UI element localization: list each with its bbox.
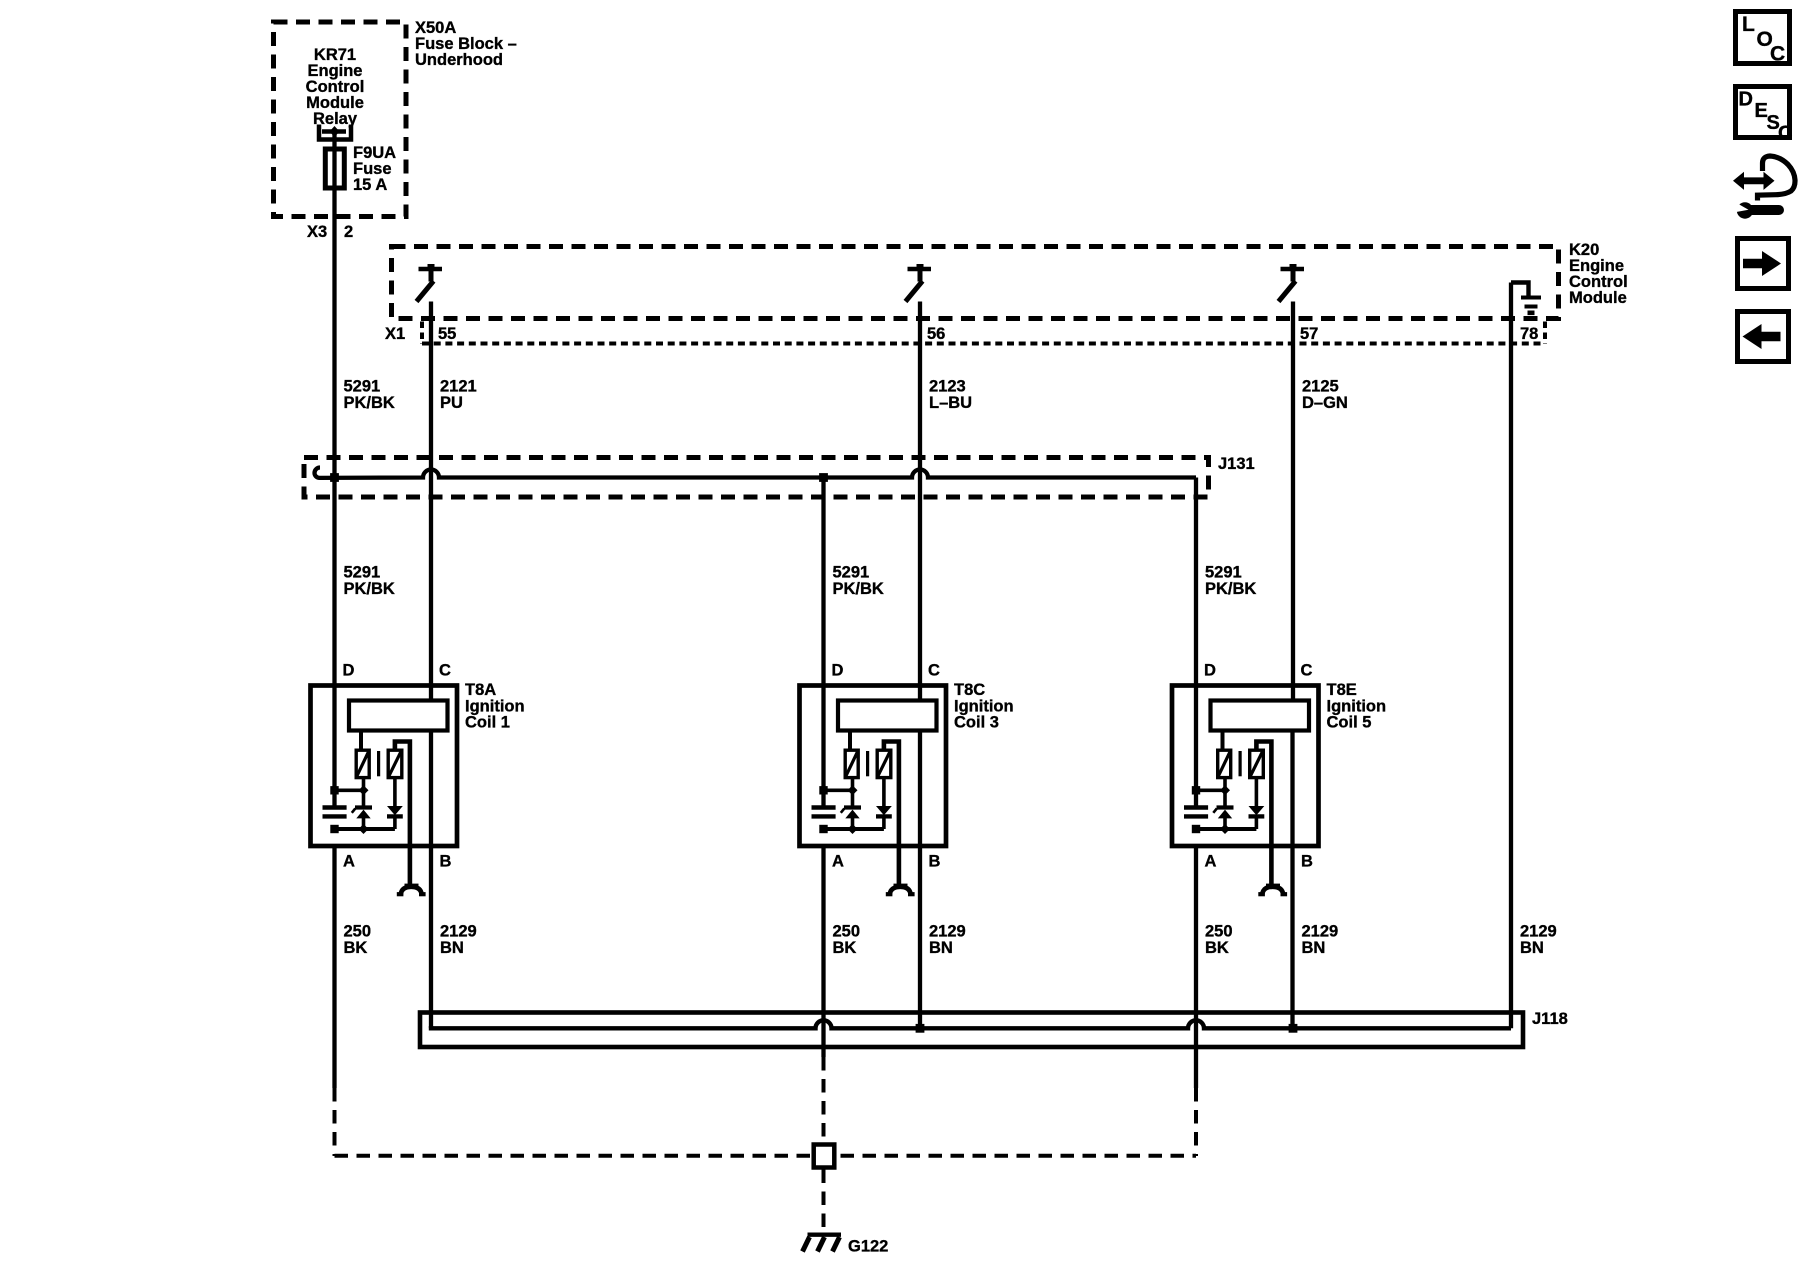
ignition coil T8C outer box <box>800 686 947 847</box>
svg-text:2129: 2129 <box>1520 923 1557 941</box>
coil T8A zener diode <box>352 808 372 830</box>
label X50A Fuse Block Underhood <box>415 19 517 69</box>
label wire 2123 L-BU <box>929 378 972 413</box>
svg-text:2129: 2129 <box>440 923 477 941</box>
wire 5291 branch to coil1 D <box>332 478 336 686</box>
coil T8C link D node to windings <box>824 788 853 792</box>
svg-text:C: C <box>1778 123 1792 145</box>
svg-text:B: B <box>440 853 452 871</box>
coil T8E D lead <box>1194 684 1198 808</box>
coil T8E primary return lead <box>1223 778 1227 806</box>
svg-text:57: 57 <box>1300 325 1318 343</box>
svg-text:PK/BK: PK/BK <box>344 580 395 598</box>
label wire 5291 PK/BK mid right <box>1205 564 1256 599</box>
splice J118 solid box <box>420 1013 1523 1048</box>
svg-text:C: C <box>439 662 451 680</box>
ignition coil T8A outer box <box>311 686 458 847</box>
ECM driver switch pin 55 <box>417 264 443 302</box>
label wire 2129 BN (ECM pin 78) <box>1520 923 1557 958</box>
coil T8A junction dots <box>330 785 368 834</box>
coil T8C spark plug gap <box>886 885 915 895</box>
ECM driver switch pin 56 <box>906 264 932 302</box>
connector X1 dashed line <box>422 342 1544 346</box>
coil T8E capacitor <box>1184 808 1208 817</box>
coil T8C module block <box>838 701 937 731</box>
svg-text:Coil 3: Coil 3 <box>954 714 999 732</box>
label wire 250 BK (T8C) <box>833 923 861 958</box>
coil T8E primary winding <box>1218 750 1231 777</box>
coil T8A core <box>377 751 380 776</box>
junction splice J131 branch coil3 <box>819 473 828 482</box>
svg-text:BN: BN <box>929 939 953 957</box>
svg-text:5291: 5291 <box>833 564 870 582</box>
wire 2129 BN pin78 to splice J118 <box>1509 283 1513 1029</box>
coil T8C primary winding <box>845 750 858 777</box>
ground G122 chassis symbol <box>803 1235 842 1252</box>
fuse F9UA <box>325 149 344 188</box>
coil T8E core <box>1238 751 1241 776</box>
coil T8E winding feed stub <box>1221 731 1225 752</box>
fuse block X50A dashed box <box>274 22 407 217</box>
engine control module K20 dashed box <box>392 247 1559 319</box>
svg-text:D: D <box>1204 662 1216 680</box>
svg-text:5291: 5291 <box>344 378 381 396</box>
svg-text:BN: BN <box>1302 939 1326 957</box>
svg-text:A: A <box>1205 853 1217 871</box>
icon LOC box <box>1736 12 1790 66</box>
junction splice J118 / coil5 B <box>1289 1024 1298 1033</box>
svg-text:Module: Module <box>1569 289 1627 307</box>
junction splice J118 / coil3 B <box>916 1024 925 1033</box>
icon arrow next box <box>1738 239 1789 289</box>
ground dashed drop center lower <box>822 1170 826 1234</box>
coil T8A winding feed stub <box>359 731 363 752</box>
coil T8E junction dots <box>1192 785 1230 834</box>
wire 2121 PU pin55 to coil1 C <box>429 302 433 702</box>
svg-text:A: A <box>832 853 844 871</box>
splice J131 dashed box <box>304 458 1209 498</box>
svg-text:T8E: T8E <box>1327 681 1357 699</box>
svg-text:78: 78 <box>1520 325 1538 343</box>
wire 250 BK coil T8A pin A <box>332 844 336 1088</box>
coil T8C winding feed stub <box>848 731 852 752</box>
label wire 250 BK (T8A) <box>344 923 372 958</box>
label T8E Ignition Coil 5 <box>1327 681 1387 732</box>
coil T8C secondary diode <box>876 778 892 830</box>
icon schematic navigation (arrows and wrench) <box>1733 156 1795 219</box>
connector X1 dashed stub right <box>1543 322 1547 345</box>
ignition coil T8E outer box <box>1172 686 1319 847</box>
ground dashed drop left (250 BK coil1) <box>333 1088 337 1156</box>
ground connector box at G122 <box>814 1145 835 1168</box>
svg-text:5291: 5291 <box>1205 564 1242 582</box>
icon DESC box <box>1736 87 1793 145</box>
relay KR71 contact symbol <box>319 125 351 140</box>
splice J118 bus line with hops <box>431 1020 1511 1028</box>
label KR71 Engine Control Module Relay <box>306 46 365 128</box>
svg-text:C: C <box>1770 43 1785 66</box>
svg-text:X3: X3 <box>307 223 327 241</box>
svg-text:Coil 1: Coil 1 <box>465 714 510 732</box>
wire 5291 PK/BK from relay through fuse to splice J131 <box>332 132 336 479</box>
svg-text:2: 2 <box>344 223 353 241</box>
connector X1 dashed stub left <box>420 322 424 345</box>
svg-text:PK/BK: PK/BK <box>344 394 395 412</box>
svg-text:D: D <box>832 662 844 680</box>
wire 2129 BN coil T8E pin B <box>1290 731 1294 1029</box>
svg-text:B: B <box>929 853 941 871</box>
coil T8A spark plug gap <box>397 885 426 895</box>
svg-text:2123: 2123 <box>929 378 966 396</box>
wire 250 BK coil T8E pin A <box>1194 844 1198 1088</box>
svg-text:55: 55 <box>438 325 456 343</box>
coil T8A primary return lead <box>362 778 366 806</box>
svg-text:250: 250 <box>833 923 861 941</box>
label wire 2129 BN (T8E) <box>1302 923 1339 958</box>
coil T8A module block <box>349 701 448 731</box>
coil T8E HV output lead <box>1256 742 1271 885</box>
ground dashed drop right (250 BK coil5) <box>1194 1088 1198 1156</box>
coil T8C secondary winding <box>877 750 891 777</box>
svg-text:2125: 2125 <box>1302 378 1339 396</box>
svg-text:C: C <box>1301 662 1313 680</box>
svg-text:BN: BN <box>1520 939 1544 957</box>
svg-text:PK/BK: PK/BK <box>1205 580 1256 598</box>
svg-text:5291: 5291 <box>344 564 381 582</box>
svg-text:J131: J131 <box>1218 455 1255 473</box>
label F9UA Fuse 15 A <box>353 144 396 194</box>
coil T8C zener diode <box>841 808 861 830</box>
coil T8A capacitor <box>323 808 347 817</box>
ground dashed drop center upper <box>822 1057 826 1144</box>
coil T8E link D node to windings <box>1196 788 1225 792</box>
junction splice J131 / wire 5291 <box>330 473 339 482</box>
coil T8A secondary diode <box>387 778 403 830</box>
svg-text:T8A: T8A <box>465 681 496 699</box>
coil T8A bottom link <box>335 827 395 831</box>
svg-text:G122: G122 <box>848 1238 888 1256</box>
label wire 2125 D-GN <box>1302 378 1348 413</box>
coil T8C core <box>866 751 869 776</box>
wire 2129 BN coil T8A pin B <box>429 731 433 1029</box>
svg-text:D: D <box>1739 89 1753 111</box>
ground dashed bus horizontal <box>335 1154 1197 1158</box>
svg-text:56: 56 <box>927 325 945 343</box>
svg-text:BN: BN <box>440 939 464 957</box>
svg-text:2129: 2129 <box>929 923 966 941</box>
wire 2129 BN coil T8C pin B <box>918 731 922 1029</box>
svg-text:Underhood: Underhood <box>415 51 503 69</box>
svg-text:BK: BK <box>833 939 857 957</box>
ECM internal ground (pin 78) <box>1511 283 1541 316</box>
svg-text:Coil 5: Coil 5 <box>1327 714 1372 732</box>
label wire 5291 PK/BK upper <box>344 378 395 413</box>
wire 2123 L-BU pin56 to coil3 C <box>918 302 922 702</box>
label wire 5291 PK/BK mid left <box>344 564 395 599</box>
label T8A Ignition Coil 1 <box>465 681 525 732</box>
svg-text:B: B <box>1301 853 1313 871</box>
wire 250 BK coil T8C pin A <box>821 844 825 1057</box>
coil T8C capacitor <box>812 808 836 817</box>
coil T8A D lead <box>332 684 336 808</box>
icon arrow previous box <box>1738 312 1789 362</box>
wire 5291 branch to coil3 D <box>821 478 825 687</box>
wire 2125 D-GN pin57 to coil5 C <box>1291 302 1295 702</box>
svg-text:PU: PU <box>440 394 463 412</box>
svg-text:250: 250 <box>344 923 372 941</box>
coil T8E secondary winding <box>1250 750 1264 777</box>
label wire 2121 PU <box>440 378 477 413</box>
svg-text:T8C: T8C <box>954 681 985 699</box>
coil T8E module block <box>1211 701 1310 731</box>
svg-text:BK: BK <box>1205 939 1229 957</box>
label wire 2129 BN (T8C) <box>929 923 966 958</box>
splice J131 bus line with hops <box>315 468 1197 478</box>
coil T8A link D node to windings <box>335 788 364 792</box>
svg-text:X1: X1 <box>385 325 405 343</box>
label T8C Ignition Coil 3 <box>954 681 1014 732</box>
wire 5291 branch to coil5 D <box>1194 478 1198 687</box>
coil T8C HV output lead <box>884 742 899 885</box>
coil T8C D lead <box>821 684 825 808</box>
svg-text:D–GN: D–GN <box>1302 394 1348 412</box>
svg-text:A: A <box>343 853 355 871</box>
svg-text:PK/BK: PK/BK <box>833 580 884 598</box>
svg-text:2129: 2129 <box>1302 923 1339 941</box>
coil T8E secondary diode <box>1249 778 1265 830</box>
svg-text:15 A: 15 A <box>353 176 387 194</box>
coil T8E bottom link <box>1196 827 1256 831</box>
label wire 5291 PK/BK mid center <box>833 564 884 599</box>
label wire 2129 BN (T8A) <box>440 923 477 958</box>
svg-text:J118: J118 <box>1532 1010 1568 1028</box>
coil T8A primary winding <box>356 750 369 777</box>
svg-text:250: 250 <box>1205 923 1233 941</box>
coil T8C bottom link <box>824 827 884 831</box>
label K20 Engine Control Module <box>1569 241 1628 307</box>
svg-text:C: C <box>928 662 940 680</box>
coil T8C junction dots <box>819 785 857 834</box>
svg-text:L–BU: L–BU <box>929 394 972 412</box>
coil T8A HV output lead <box>395 742 410 885</box>
svg-text:2121: 2121 <box>440 378 477 396</box>
coil T8E zener diode <box>1213 808 1233 830</box>
coil T8E spark plug gap <box>1258 885 1287 895</box>
svg-text:BK: BK <box>344 939 368 957</box>
svg-text:L: L <box>1742 13 1755 36</box>
label wire 250 BK (T8E) <box>1205 923 1233 958</box>
coil T8A secondary winding <box>388 750 402 777</box>
coil T8C primary return lead <box>851 778 855 806</box>
ECM driver switch pin 57 <box>1279 264 1305 302</box>
svg-text:D: D <box>343 662 355 680</box>
